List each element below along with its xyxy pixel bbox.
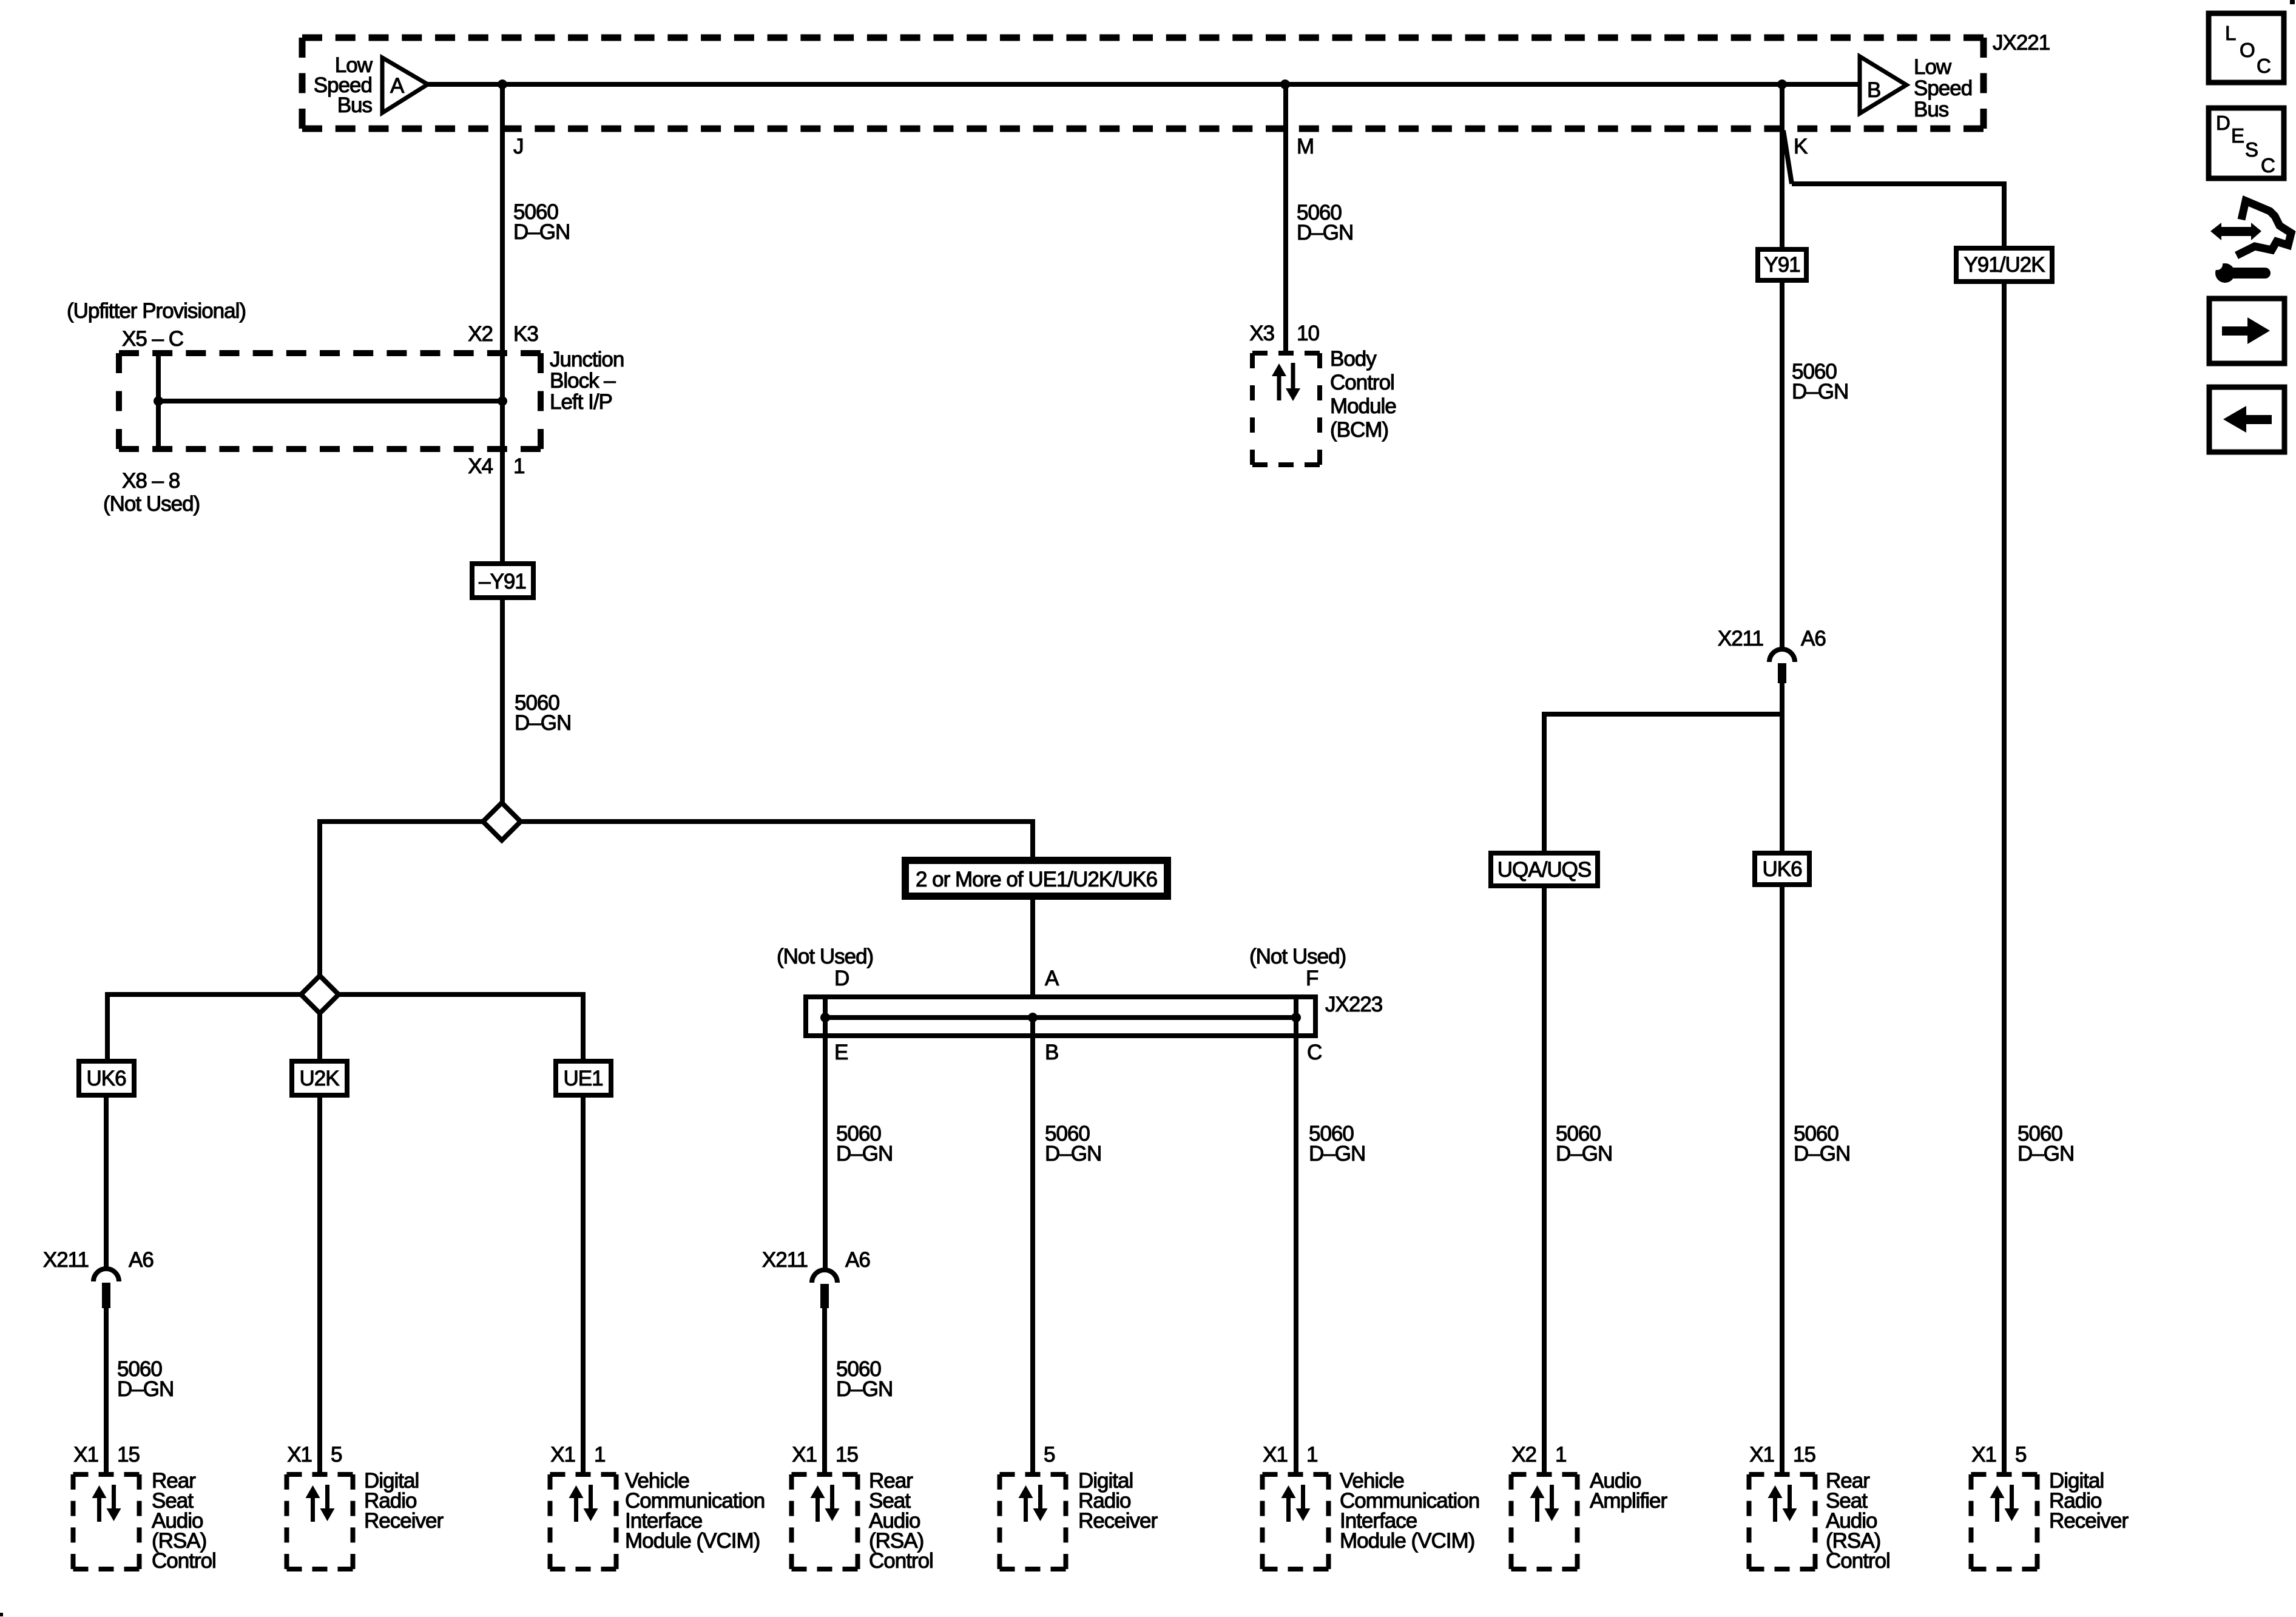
svg-text:Control: Control <box>152 1549 216 1573</box>
svg-text:Control: Control <box>869 1549 933 1573</box>
option box UK6 <box>79 1061 134 1095</box>
wire below UK6 <box>104 1098 109 1270</box>
svg-text:(Upfitter Provisional): (Upfitter Provisional) <box>67 299 246 323</box>
svg-text:X1: X1 <box>1971 1443 1996 1467</box>
svg-text:B: B <box>1045 1041 1058 1064</box>
svg-text:D–GN: D–GN <box>2017 1142 2074 1166</box>
svg-text:Y91/U2K: Y91/U2K <box>1963 253 2045 277</box>
bus connector JX221 dashed box <box>302 35 1984 41</box>
svg-text:Control: Control <box>1826 1549 1890 1573</box>
component Vehicle Communication Interface Module (VCIM) 2 dashed box <box>1263 1472 1329 1477</box>
wire M vertical to BCM <box>1283 84 1288 353</box>
junction dot JX223 F/C <box>1291 1013 1301 1022</box>
icon DESC box <box>2209 108 2284 178</box>
svg-text:X211: X211 <box>43 1248 89 1272</box>
svg-text:L: L <box>2225 22 2236 44</box>
wire corner down to 2-or-more box <box>1030 822 1035 857</box>
svg-text:X1: X1 <box>1749 1443 1774 1467</box>
svg-text:D–GN: D–GN <box>836 1142 893 1166</box>
svg-text:Module (VCIM): Module (VCIM) <box>625 1529 760 1553</box>
component Vehicle Communication Interface Module (VCIM) 1 dashed box <box>550 1472 616 1477</box>
junction dot JX223 D <box>820 1013 830 1022</box>
wire branch horizontal to Y91/U2K <box>1792 181 2004 186</box>
component Digital Radio Receiver 1 arrows <box>311 1497 315 1522</box>
wire branch to UQA/UQS <box>1544 712 1782 717</box>
svg-text:1: 1 <box>1555 1443 1566 1467</box>
component Digital Radio Receiver 3 dashed box <box>1971 1472 2038 1477</box>
wire diamond2 left <box>107 992 301 997</box>
wire below -Y91 <box>500 600 505 803</box>
bus driver triangle A <box>382 58 428 113</box>
svg-text:15: 15 <box>117 1443 140 1467</box>
icon wrench <box>2215 263 2235 283</box>
wire JX223 F stub <box>1294 997 1298 1018</box>
svg-text:Speed: Speed <box>1914 76 1972 100</box>
connector X211 A6 (right) arc <box>1769 649 1795 662</box>
svg-text:Bus: Bus <box>337 93 373 117</box>
icon vehicle outline <box>2237 201 2291 255</box>
option box Y91 <box>1758 249 1806 280</box>
svg-text:B: B <box>1867 78 1880 102</box>
wire K vertical to Y91 <box>1780 84 1784 247</box>
svg-text:JX223: JX223 <box>1325 993 1382 1016</box>
icon right-arrow box <box>2209 299 2284 363</box>
svg-text:A6: A6 <box>845 1248 870 1272</box>
svg-text:–Y91: –Y91 <box>479 570 526 593</box>
connector X211 A6 (col1) arc <box>93 1269 119 1281</box>
icon LOC box <box>2209 13 2284 83</box>
svg-text:10: 10 <box>1297 322 1319 345</box>
wire below col4 pin <box>822 1308 827 1476</box>
svg-text:5: 5 <box>331 1443 342 1467</box>
option box UQA/UQS <box>1491 853 1598 886</box>
component Rear Seat Audio (RSA) Control 2 arrows <box>815 1497 820 1522</box>
svg-text:Receiver: Receiver <box>364 1509 444 1533</box>
svg-text:Module (VCIM): Module (VCIM) <box>1340 1529 1474 1553</box>
svg-text:X5 – C: X5 – C <box>122 327 183 351</box>
wire diamond2 right <box>339 992 583 997</box>
svg-text:D: D <box>2216 112 2230 134</box>
junction dot JX223 A/B <box>1028 1013 1038 1022</box>
svg-text:UQA/UQS: UQA/UQS <box>1497 858 1591 882</box>
svg-text:X2: X2 <box>1511 1443 1536 1467</box>
svg-text:Control: Control <box>1330 371 1394 394</box>
svg-text:X4: X4 <box>468 454 493 478</box>
wire diamond1 left to corner <box>320 819 483 824</box>
wire diamond2 bottom to U2K <box>317 1013 322 1061</box>
svg-text:JX221: JX221 <box>1993 31 2050 55</box>
svg-text:Left I/P: Left I/P <box>550 390 612 414</box>
wire below Y91 box <box>1780 283 1784 649</box>
page mark bottom-left <box>0 1613 3 1616</box>
svg-text:D–GN: D–GN <box>1297 221 1353 245</box>
icon left-arrow box <box>2209 387 2284 452</box>
wire below col1 pin <box>104 1308 109 1476</box>
svg-text:X211: X211 <box>762 1248 808 1272</box>
svg-text:K3: K3 <box>513 322 538 346</box>
wire K slant branch <box>1783 130 1792 184</box>
wire down to UQA/UQS box <box>1542 712 1547 851</box>
svg-text:Module: Module <box>1330 394 1396 418</box>
svg-text:1: 1 <box>1306 1443 1317 1467</box>
svg-text:D–GN: D–GN <box>1556 1142 1612 1166</box>
wire JX223 C down <box>1294 1018 1298 1476</box>
svg-text:(Not Used): (Not Used) <box>777 945 873 968</box>
wire below X211 right pin <box>1780 683 1784 851</box>
svg-text:Receiver: Receiver <box>1078 1509 1158 1533</box>
option box Y91/U2K <box>1956 248 2052 282</box>
svg-text:X1: X1 <box>550 1443 575 1467</box>
connector X211 A6 (right) pin <box>1778 663 1786 683</box>
svg-text:M: M <box>1297 135 1314 158</box>
svg-text:K: K <box>1794 135 1808 158</box>
wire JX223 internal bus <box>825 1015 1296 1020</box>
in-line harness connector JX223 box <box>806 997 1315 1036</box>
svg-text:O: O <box>2240 39 2255 61</box>
svg-text:S: S <box>2245 138 2258 161</box>
wire below UE1 <box>581 1098 586 1476</box>
svg-text:A: A <box>1045 967 1059 990</box>
svg-text:D–GN: D–GN <box>515 711 571 735</box>
wire JX223 D stub <box>823 997 828 1018</box>
option box -Y91 <box>472 564 533 598</box>
svg-text:X1: X1 <box>1263 1443 1288 1467</box>
component Rear Seat Audio (RSA) Control 3 dashed box <box>1749 1472 1815 1477</box>
svg-text:2 or More of UE1/U2K/UK6: 2 or More of UE1/U2K/UK6 <box>916 868 1157 891</box>
component Audio Amplifier dashed box <box>1511 1472 1578 1477</box>
junction dot inside block (right) <box>498 396 507 406</box>
svg-text:X211: X211 <box>1718 627 1763 650</box>
wire low speed bus horizontal <box>428 82 1860 87</box>
splice diamond 2 <box>301 976 339 1013</box>
junction block - left I/P dashed box <box>119 350 541 356</box>
connector X211 A6 (col1) pin <box>102 1283 110 1308</box>
icon left-arrow <box>2245 415 2272 424</box>
component Rear Seat Audio (RSA) Control 2 dashed box <box>792 1472 858 1477</box>
component Digital Radio Receiver 3 arrows <box>1995 1497 1999 1522</box>
svg-text:A6: A6 <box>129 1248 154 1272</box>
svg-text:15: 15 <box>1793 1443 1815 1467</box>
svg-text:1: 1 <box>594 1443 605 1467</box>
connector X211 A6 (col4) pin <box>820 1284 829 1308</box>
wire 2-or-more box down to JX223 A <box>1030 900 1035 998</box>
svg-text:UK6: UK6 <box>86 1067 126 1090</box>
icon right-arrow <box>2222 326 2249 336</box>
svg-text:J: J <box>513 135 524 158</box>
body control module dashed box <box>1252 351 1320 356</box>
component Digital Radio Receiver 2 dashed box <box>1000 1472 1066 1477</box>
svg-text:D–GN: D–GN <box>1309 1142 1365 1166</box>
wire below Y91/U2K long <box>2002 284 2007 1476</box>
svg-text:Block –: Block – <box>550 369 616 393</box>
wire diamond1 right <box>521 819 1035 824</box>
svg-text:D–GN: D–GN <box>836 1377 893 1401</box>
svg-text:D–GN: D–GN <box>1792 380 1848 403</box>
wire corner down to UE1 <box>581 992 586 1061</box>
svg-text:Junction: Junction <box>550 348 624 371</box>
component Audio Amplifier arrows <box>1535 1497 1539 1522</box>
wire corner down to diamond2 <box>317 819 322 976</box>
svg-text:1: 1 <box>513 454 524 478</box>
svg-text:5: 5 <box>1044 1443 1055 1467</box>
svg-text:A6: A6 <box>1801 627 1826 650</box>
node K junction dot <box>1777 79 1787 89</box>
svg-text:D: D <box>834 967 849 990</box>
bus driver triangle B <box>1860 56 1906 113</box>
svg-text:X2: X2 <box>468 322 493 346</box>
svg-text:E: E <box>2231 124 2244 147</box>
svg-text:15: 15 <box>836 1443 858 1467</box>
icon vehicle-connector double arrow <box>2221 227 2251 236</box>
wire branch down to Y91/U2K box <box>2002 181 2007 246</box>
wire X5-C stub vertical <box>156 353 161 449</box>
wire below UQA/UQS <box>1542 888 1547 1476</box>
wire JX223 E down <box>823 1018 828 1270</box>
svg-text:X1: X1 <box>73 1443 98 1467</box>
svg-text:X1: X1 <box>792 1443 817 1467</box>
option box UK6 (right) <box>1755 853 1809 885</box>
svg-text:Low: Low <box>1914 55 1952 79</box>
component Vehicle Communication Interface Module (VCIM) 1 arrows <box>574 1497 578 1522</box>
component Rear Seat Audio (RSA) Control 1 dashed box <box>73 1472 140 1477</box>
svg-text:E: E <box>834 1041 848 1064</box>
svg-text:A: A <box>390 74 405 98</box>
svg-text:UE1: UE1 <box>563 1067 603 1090</box>
node M junction dot <box>1280 79 1290 89</box>
svg-text:Receiver: Receiver <box>2049 1509 2129 1533</box>
page mark top-right <box>2290 0 2295 4</box>
BCM arrows <box>1277 374 1281 400</box>
svg-text:D–GN: D–GN <box>513 220 570 244</box>
svg-text:(Not Used): (Not Used) <box>103 492 200 516</box>
svg-text:5: 5 <box>2015 1443 2026 1467</box>
svg-text:(BCM): (BCM) <box>1330 418 1388 442</box>
svg-text:Bus: Bus <box>1914 98 1949 121</box>
wire inside junction block horizontal <box>158 399 502 403</box>
svg-text:X3: X3 <box>1249 322 1274 345</box>
component Digital Radio Receiver 2 arrows <box>1024 1497 1028 1522</box>
splice diamond 1 <box>483 803 521 840</box>
wire below UK6 right <box>1780 887 1784 1476</box>
wire JX223 B down <box>1030 1021 1035 1476</box>
wire below U2K <box>317 1098 322 1476</box>
svg-text:Y91: Y91 <box>1764 253 1800 277</box>
svg-text:F: F <box>1306 967 1318 990</box>
component Rear Seat Audio (RSA) Control 1 arrows <box>97 1497 101 1522</box>
svg-text:Amplifier: Amplifier <box>1590 1489 1667 1513</box>
node J junction dot <box>498 79 507 89</box>
svg-text:X8 – 8: X8 – 8 <box>122 469 180 493</box>
svg-text:X1: X1 <box>287 1443 312 1467</box>
svg-text:U2K: U2K <box>299 1067 339 1090</box>
component Vehicle Communication Interface Module (VCIM) 2 arrows <box>1286 1497 1291 1522</box>
svg-text:UK6: UK6 <box>1762 857 1801 881</box>
wire corner down to UK6 <box>105 992 110 1061</box>
wire J vertical to junction block and -Y91 <box>500 84 505 561</box>
svg-text:C: C <box>2261 154 2275 177</box>
component Rear Seat Audio (RSA) Control 3 arrows <box>1773 1497 1777 1522</box>
junction dot inside block (left) <box>154 396 163 406</box>
svg-text:D–GN: D–GN <box>1045 1142 1101 1166</box>
svg-text:D–GN: D–GN <box>1794 1142 1850 1166</box>
svg-text:C: C <box>2257 55 2271 77</box>
svg-text:(Not Used): (Not Used) <box>1249 945 1346 968</box>
svg-text:Body: Body <box>1330 347 1377 371</box>
svg-text:D–GN: D–GN <box>117 1377 174 1401</box>
option box 2 or More of UE1/U2K/UK6 <box>905 860 1167 896</box>
option box U2K <box>292 1061 347 1095</box>
option box UE1 <box>556 1061 611 1095</box>
component Digital Radio Receiver 1 dashed box <box>287 1472 353 1477</box>
connector X211 A6 (col4) arc <box>812 1270 837 1283</box>
svg-text:C: C <box>1307 1041 1322 1064</box>
